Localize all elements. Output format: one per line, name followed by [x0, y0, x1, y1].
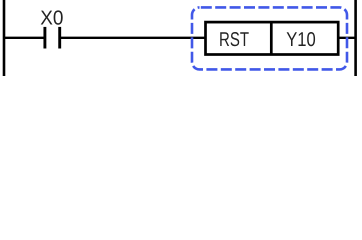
- svg-text:Y10: Y10: [286, 29, 316, 51]
- contact X0 left bar: [43, 27, 46, 49]
- svg-text:RST: RST: [219, 29, 249, 51]
- selection highlight dashed rounded rectangle: [192, 7, 347, 69]
- wire from contact to instruction box: [60, 37, 206, 39]
- wire from instruction box to right rail: [338, 37, 355, 39]
- contact X0 right bar: [58, 27, 61, 49]
- svg-text:X0: X0: [40, 8, 63, 30]
- left power rail: [3, 0, 6, 76]
- instruction box cell divider: [270, 22, 273, 54]
- instruction box outline: [206, 22, 339, 54]
- wire from left rail to contact: [4, 37, 45, 39]
- right power rail: [354, 0, 357, 76]
